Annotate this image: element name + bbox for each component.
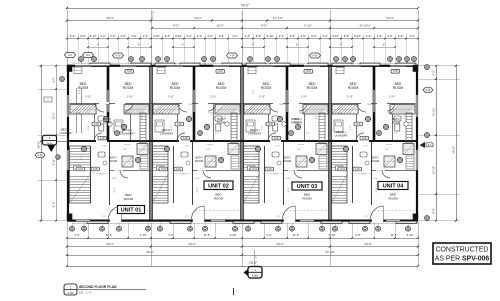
svg-text:9’-10”: 9’-10” (304, 24, 311, 28)
svg-text:LAUNDRY: LAUNDRY (334, 134, 347, 138)
svg-text:BATH: BATH (104, 117, 111, 121)
svg-text:BATH: BATH (218, 117, 225, 121)
svg-text:6’-6”: 6’-6” (344, 34, 349, 38)
svg-text:N-03: N-03 (340, 169, 346, 171)
svg-text:2’-10”: 2’-10” (332, 34, 339, 38)
svg-text:A-102: A-102 (67, 292, 74, 295)
svg-text:11’-5”: 11’-5” (293, 233, 300, 237)
svg-text:6’-1”: 6’-1” (343, 156, 345, 160)
svg-text:38’-9”: 38’-9” (37, 141, 41, 149)
svg-text:11’-11”: 11’-11” (432, 108, 436, 116)
svg-text:4’-0”: 4’-0” (52, 77, 56, 82)
svg-text:9’-10”: 9’-10” (85, 97, 91, 99)
svg-text:N-02: N-02 (218, 71, 224, 73)
svg-text:N-03: N-03 (252, 169, 258, 171)
svg-text:ROOM: ROOM (103, 121, 112, 125)
svg-text:3’-2”: 3’-2” (432, 70, 436, 75)
svg-text:2’-2”: 2’-2” (279, 34, 284, 38)
svg-text:4’-0”: 4’-0” (300, 34, 305, 38)
svg-text:3’-0”: 3’-0” (102, 216, 106, 218)
svg-text:SECOND FLOOR PLAN: SECOND FLOOR PLAN (79, 285, 117, 289)
svg-text:N-0: N-0 (86, 54, 91, 57)
svg-text:2’-8”: 2’-8” (123, 149, 127, 151)
svg-text:11’-6”: 11’-6” (114, 187, 116, 192)
svg-text:2’-6”: 2’-6” (377, 34, 382, 38)
svg-text:BATH: BATH (284, 156, 291, 160)
svg-text:ROOM: ROOM (261, 86, 272, 90)
svg-text:9’-10”: 9’-10” (168, 97, 174, 99)
svg-text:2’-2”: 2’-2” (100, 34, 105, 38)
svg-text:2’-6”: 2’-6” (290, 34, 295, 38)
svg-text:2’-8”: 2’-8” (276, 146, 280, 148)
svg-text:9’-10”: 9’-10” (267, 34, 274, 38)
svg-text:9’-2”: 9’-2” (173, 24, 179, 28)
svg-text:3’-0”: 3’-0” (364, 216, 368, 218)
svg-text:3’-1”: 3’-1” (404, 115, 406, 119)
svg-text:8’-11”: 8’-11” (52, 201, 56, 208)
svg-text:W-04: W-04 (209, 113, 215, 115)
svg-text:5’-0”: 5’-0” (273, 174, 277, 176)
svg-text:3’-0”: 3’-0” (276, 216, 280, 218)
svg-text:N-06: N-06 (229, 55, 235, 58)
svg-text:N-06: N-06 (425, 89, 431, 92)
svg-text:36’-9”: 36’-9” (452, 146, 456, 154)
svg-text:9’-10”: 9’-10” (90, 34, 97, 38)
svg-text:2’-6”: 2’-6” (110, 34, 115, 38)
svg-text:K-08: K-08 (183, 138, 189, 140)
svg-text:4’-0”: 4’-0” (387, 34, 392, 38)
svg-text:6’-6”: 6’-6” (311, 34, 316, 38)
svg-text:S-05: S-05 (267, 169, 273, 171)
svg-text:2’-2”: 2’-2” (186, 34, 191, 38)
svg-text:LAUNDRY: LAUNDRY (160, 132, 173, 136)
svg-text:N-06: N-06 (312, 55, 318, 58)
svg-text:6’-6”: 6’-6” (398, 34, 403, 38)
svg-text:ROOM: ROOM (170, 86, 181, 90)
svg-text:11’-5”: 11’-5” (391, 233, 398, 237)
svg-text:A-30: A-30 (47, 142, 52, 145)
svg-text:7’-0”: 7’-0” (306, 133, 310, 135)
svg-text:UNIT 02: UNIT 02 (208, 183, 229, 189)
svg-text:BATH: BATH (372, 156, 379, 160)
svg-text:2’-6”: 2’-6” (197, 34, 202, 38)
svg-text:13’-2”: 13’-2” (194, 16, 202, 20)
svg-text:ROOM: ROOM (388, 197, 398, 201)
svg-text:UNIT 04: UNIT 04 (383, 183, 405, 189)
svg-text:W-04: W-04 (189, 104, 195, 106)
svg-text:ROOM: ROOM (348, 86, 359, 90)
svg-text:W-04: W-04 (159, 113, 165, 115)
svg-text:BATH: BATH (393, 117, 400, 121)
svg-text:9’-10”: 9’-10” (175, 34, 182, 38)
svg-text:18’-3”: 18’-3” (106, 242, 114, 246)
svg-text:7’-0”: 7’-0” (394, 133, 398, 135)
svg-text:12’-10”: 12’-10” (432, 166, 436, 174)
svg-text:ROOM: ROOM (123, 86, 134, 90)
svg-text:N-03: N-03 (161, 169, 167, 171)
svg-text:2’-2”: 2’-2” (366, 34, 371, 38)
svg-text:2’-8”: 2’-8” (364, 146, 368, 148)
svg-text:11’-6”: 11’-6” (288, 187, 290, 192)
svg-text:5’-4”: 5’-4” (350, 126, 352, 130)
svg-text:ROOM: ROOM (392, 121, 401, 125)
svg-text:2’-8”: 2’-8” (297, 149, 301, 151)
svg-text:8’-4”: 8’-4” (79, 90, 81, 95)
svg-text:2’-10”: 2’-10” (153, 34, 160, 38)
svg-text:K-08: K-08 (362, 138, 368, 140)
svg-text:76’-0”: 76’-0” (241, 4, 249, 8)
svg-text:BATH: BATH (295, 117, 302, 121)
svg-text:ROOM: ROOM (217, 121, 226, 125)
svg-text:13’-9”: 13’-9” (386, 16, 394, 20)
svg-text:S-05: S-05 (94, 124, 100, 126)
svg-text:2’-2”: 2’-2” (409, 34, 414, 38)
svg-text:5’-10”: 5’-10” (407, 233, 414, 237)
svg-text:K-08: K-08 (100, 138, 106, 140)
svg-text:2’-2”: 2’-2” (143, 34, 148, 38)
svg-text:S-05: S-05 (176, 169, 182, 171)
svg-text:6’-6”: 6’-6” (131, 34, 136, 38)
svg-text:3’-0”: 3’-0” (185, 216, 189, 218)
svg-text:9’-6”: 9’-6” (261, 24, 267, 28)
svg-text:N-02: N-02 (393, 71, 399, 73)
svg-text:W-04: W-04 (300, 113, 306, 115)
svg-text:3’-1”: 3’-1” (225, 115, 227, 119)
svg-text:5’-0”: 5’-0” (182, 174, 186, 176)
svg-text:9’-10”: 9’-10” (259, 97, 265, 99)
svg-text:UNIT 03: UNIT 03 (297, 184, 318, 190)
svg-text:W-04: W-04 (338, 113, 344, 115)
svg-text:LAUNDRY: LAUNDRY (59, 131, 72, 135)
svg-text:LAUNDRY: LAUNDRY (248, 132, 261, 136)
svg-text:ROOM: ROOM (283, 159, 292, 163)
svg-text:N-02: N-02 (127, 71, 133, 73)
svg-text:2’-2”: 2’-2” (322, 34, 327, 38)
svg-text:ROOM: ROOM (216, 86, 227, 90)
svg-text:ROOM: ROOM (124, 197, 134, 201)
svg-text:S-05: S-05 (177, 124, 183, 126)
svg-text:6’-6”: 6’-6” (256, 34, 261, 38)
svg-text:AS PER SPV-006: AS PER SPV-006 (435, 255, 490, 262)
svg-text:W-04: W-04 (106, 104, 112, 106)
svg-text:ROOM: ROOM (393, 86, 404, 90)
svg-text:8’-4”: 8’-4” (253, 90, 255, 95)
svg-text:6’-6”: 6’-6” (80, 34, 85, 38)
svg-text:N-0: N-0 (68, 54, 73, 57)
svg-text:11’-5”: 11’-5” (106, 233, 113, 237)
svg-text:8’-9”: 8’-9” (432, 208, 436, 213)
svg-text:ROOM: ROOM (294, 121, 303, 125)
svg-text:ROOM: ROOM (195, 159, 204, 163)
svg-text:BATH: BATH (110, 156, 117, 160)
svg-text:2’-2”: 2’-2” (70, 34, 75, 38)
svg-text:W-04: W-04 (76, 113, 82, 115)
svg-text:W-04: W-04 (368, 104, 374, 106)
svg-text:2’-8”: 2’-8” (206, 149, 210, 151)
svg-text:2’-3”: 2’-3” (266, 233, 271, 237)
svg-text:12’-1½”: 12’-1½” (273, 16, 283, 20)
svg-text:K-08: K-08 (274, 138, 280, 140)
svg-text:4’-10”: 4’-10” (140, 233, 147, 237)
svg-text:6’-1”: 6’-1” (81, 156, 83, 160)
svg-text:BATH: BATH (196, 156, 203, 160)
svg-text:S-05: S-05 (93, 169, 99, 171)
svg-text:19’-2”: 19’-2” (188, 242, 196, 246)
svg-text:CONSTRUCTED: CONSTRUCTED (436, 246, 489, 253)
svg-text:11’-6”: 11’-6” (197, 187, 199, 192)
svg-text:4’-0”: 4’-0” (120, 34, 125, 38)
svg-text:11’-5”: 11’-5” (204, 233, 211, 237)
svg-text:3’-1”: 3’-1” (142, 115, 144, 119)
svg-text:ROOM: ROOM (214, 197, 224, 201)
svg-text:9’-10”: 9’-10” (347, 97, 353, 99)
svg-text:W-04: W-04 (280, 104, 286, 106)
svg-text:2’-4”: 2’-4” (74, 233, 79, 237)
svg-text:ROOM: ROOM (78, 86, 89, 90)
svg-text:4’-10”: 4’-10” (329, 233, 336, 237)
svg-text:18’-3”: 18’-3” (106, 16, 114, 20)
svg-text:N-05: N-05 (37, 154, 43, 157)
svg-text:W-04: W-04 (250, 113, 256, 115)
svg-text:5’-0”: 5’-0” (99, 174, 103, 176)
svg-text:6’-1”: 6’-1” (255, 156, 257, 160)
svg-text:ROOM: ROOM (109, 159, 118, 163)
svg-text:W-04: W-04 (126, 113, 132, 115)
svg-text:A-302: A-302 (252, 275, 259, 278)
svg-text:5’-4”: 5’-4” (88, 126, 90, 130)
svg-text:2’-8”: 2’-8” (185, 146, 189, 148)
svg-text:9’-10”: 9’-10” (354, 34, 361, 38)
svg-text:N-03: N-03 (78, 169, 84, 171)
svg-text:38’-0”: 38’-0” (146, 250, 154, 254)
svg-text:S-05: S-05 (268, 124, 274, 126)
svg-text:19’-2”: 19’-2” (276, 242, 284, 246)
svg-text:4’-10”: 4’-10” (230, 233, 237, 237)
svg-text:10’-2”: 10’-2” (52, 113, 56, 120)
svg-text:11’-10½”: 11’-10½” (359, 24, 370, 28)
svg-text:3’-1”: 3’-1” (316, 115, 318, 119)
svg-text:5’-0”: 5’-0” (361, 174, 365, 176)
svg-text:2’-3”: 2’-3” (355, 233, 360, 237)
svg-text:2’-2”: 2’-2” (232, 34, 237, 38)
svg-text:9’-11”: 9’-11” (52, 159, 56, 166)
svg-text:S-05: S-05 (356, 124, 362, 126)
svg-text:5’-4”: 5’-4” (262, 126, 264, 130)
svg-text:ROOM: ROOM (302, 197, 312, 201)
svg-text:ROOM: ROOM (307, 86, 318, 90)
svg-text:2’-8”: 2’-8” (102, 146, 106, 148)
svg-text:UNIT 01: UNIT 01 (121, 207, 142, 213)
svg-text:N-06: N-06 (115, 55, 121, 58)
svg-text:S-05: S-05 (355, 169, 361, 171)
svg-text:2’-3”: 2’-3” (168, 233, 173, 237)
svg-text:6’-1”: 6’-1” (164, 156, 166, 160)
svg-text:1/8” : 1’-0”: 1/8” : 1’-0” (79, 291, 92, 295)
svg-text:4’-0”: 4’-0” (207, 34, 212, 38)
svg-text:LAUNDRY: LAUNDRY (120, 132, 133, 136)
svg-text:N-02: N-02 (306, 71, 312, 73)
svg-text:2’-2”: 2’-2” (245, 34, 250, 38)
svg-text:6’-6”: 6’-6” (219, 34, 224, 38)
svg-text:W-04: W-04 (388, 113, 394, 115)
svg-text:37’-10”: 37’-10” (325, 250, 334, 254)
svg-text:76’-0”: 76’-0” (249, 261, 257, 265)
svg-text:10’-3”: 10’-3” (216, 24, 223, 28)
svg-text:19’-5”: 19’-5” (364, 242, 372, 246)
svg-text:2’-8”: 2’-8” (385, 149, 389, 151)
svg-text:6’-6”: 6’-6” (165, 34, 170, 38)
svg-text:7’-0”: 7’-0” (215, 133, 219, 135)
svg-text:ROOM: ROOM (371, 159, 380, 163)
